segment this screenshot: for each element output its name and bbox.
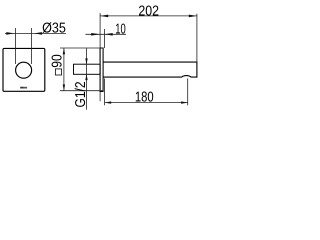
dimension 10: dimension line bbox=[86, 33, 127, 35]
wall plate P1 (side view) bbox=[100, 48, 103, 92]
dimension Ø35: left arrow (outside, pointing right) bbox=[6, 32, 14, 35]
wall plate P1 (front view, square 90x90) bbox=[3, 48, 45, 91]
dimension 202: extension line right bbox=[196, 14, 198, 62]
dimension G1/2: lower arrow (pointing up at stub bottom) bbox=[85, 74, 87, 80]
spout body (side view) with aerator bump underneath bbox=[103, 62, 197, 77]
dimension 202: right arrow bbox=[189, 15, 197, 18]
dimension square-90: extension line bottom bbox=[60, 90, 103, 92]
G1/2 connection stub (behind wall) bbox=[74, 64, 101, 74]
svg-text:Ø35: Ø35 bbox=[42, 21, 66, 37]
dimension Ø35: dimension line bbox=[5, 32, 66, 34]
dimension Ø35: extension line left bbox=[15, 28, 17, 64]
dimension 180: left arrow bbox=[105, 101, 112, 103]
square symbol of square-90 label bbox=[55, 69, 61, 75]
dimension 180: extension line right bbox=[187, 78, 189, 105]
wall line (left extension of 202, runs down past plate) bbox=[99, 13, 101, 101]
dimension G1/2: dimension line (vertical) bbox=[86, 48, 88, 109]
dimension 10: right arrow (outside, pointing left) bbox=[105, 33, 113, 36]
dimension 180: extension line left bbox=[104, 79, 106, 106]
dimension Ø35: right arrow (outside, pointing left) bbox=[34, 32, 42, 35]
dimension 202: left arrow bbox=[100, 15, 108, 18]
dimension 10: extension line right (plate front) bbox=[104, 29, 106, 48]
svg-text:G1/2: G1/2 bbox=[73, 81, 89, 107]
dimension 180: right arrow bbox=[181, 101, 188, 103]
dimension 10: left arrow (outside, pointing right) bbox=[91, 33, 100, 36]
dimension 180: dimension line bbox=[105, 102, 188, 104]
dimension square-90: dimension line bbox=[63, 48, 65, 91]
dimension G1/2: upper arrow (pointing down at stub top) bbox=[85, 58, 87, 64]
KEUCO logo on plate bbox=[20, 87, 27, 89]
spout outlet circle (front view, Ø35) bbox=[16, 62, 32, 78]
svg-text:202: 202 bbox=[138, 3, 159, 19]
svg-text:90: 90 bbox=[50, 54, 66, 67]
svg-text:180: 180 bbox=[135, 90, 154, 106]
dimension square-90: extension line top bbox=[60, 47, 103, 49]
dimension Ø35: extension line right bbox=[31, 28, 33, 64]
dimension square-90: top arrow (pointing up) bbox=[63, 48, 65, 54]
dimension square-90: bottom arrow (pointing down) bbox=[63, 85, 65, 91]
svg-text:10: 10 bbox=[115, 21, 126, 37]
dimension 202: dimension line bbox=[100, 15, 197, 17]
